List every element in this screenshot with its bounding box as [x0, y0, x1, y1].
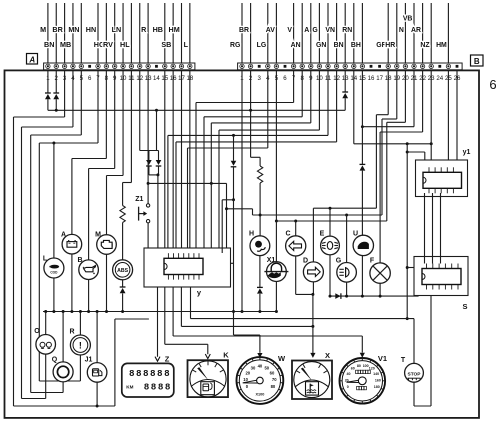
box y1 outline — [416, 160, 468, 197]
svg-text:V1: V1 — [378, 354, 387, 363]
wire T bottom to S bottom — [413, 382, 415, 406]
wire A12 to bar — [139, 70, 141, 151]
svg-text:0: 0 — [347, 385, 349, 389]
wire to lamp C — [295, 221, 297, 236]
svg-text:A: A — [28, 55, 35, 64]
wire colour labels connector B — [230, 16, 447, 50]
junction node bus311/ABS — [121, 310, 124, 313]
wire B19 bus y215 — [396, 70, 398, 119]
svg-text:40: 40 — [347, 372, 351, 376]
connector B strip — [238, 63, 463, 70]
wire A7 to R (left margin) — [97, 70, 99, 143]
svg-text:888888: 888888 — [129, 368, 171, 379]
wire Z1 to box y — [147, 223, 149, 253]
svg-text:BN: BN — [334, 42, 344, 49]
junction node J1 tap — [96, 405, 99, 408]
wire A5 to Q (left margin) — [80, 70, 82, 135]
wire colour labels connector A — [40, 25, 189, 49]
connector B label box — [471, 55, 484, 66]
wire lamp H to diode — [259, 256, 261, 288]
svg-text:24: 24 — [436, 75, 443, 82]
wire B9 to box y — [310, 70, 312, 123]
wire B4 to box y — [267, 70, 269, 148]
wire resistor R2 to lamp H — [259, 183, 261, 236]
junction node diode D10 tap — [232, 134, 235, 137]
wire A18 to box y — [189, 70, 191, 253]
junction node H feed — [259, 214, 262, 217]
wire lamp D to X — [312, 282, 314, 294]
diode D3 on pin B13 — [344, 70, 346, 92]
wire bus318 to T — [191, 318, 415, 320]
wire tap to lamp L — [53, 143, 55, 259]
wire B25 to box y1 — [447, 70, 449, 167]
svg-text:E: E — [320, 231, 325, 238]
wire B12 to box y — [336, 70, 338, 142]
IC U3 body — [422, 269, 461, 285]
wire to lamp X1 — [275, 221, 277, 262]
junction node G feed — [345, 214, 348, 217]
junction node bus311/A — [70, 310, 73, 313]
junction node bus311/M — [105, 310, 108, 313]
wire lamp X1 to bus — [275, 282, 277, 312]
wire B2 to resistor R2 — [250, 70, 252, 158]
svg-text:Q: Q — [52, 357, 58, 364]
wire A15 to box y — [164, 70, 166, 253]
wire A3 to J1 (left margin) — [64, 70, 66, 117]
arrowhead W feed — [257, 353, 262, 358]
svg-text:KM: KM — [126, 384, 133, 389]
svg-text:A: A — [304, 27, 309, 34]
wire box y to X — [180, 287, 182, 326]
svg-text:!: ! — [79, 340, 82, 350]
diode D1 on pin A1 — [47, 70, 49, 93]
resistor R1 — [120, 206, 125, 223]
junction node dogleg — [225, 207, 228, 210]
wire A11 to resistor R1 — [130, 70, 132, 183]
svg-text:X100: X100 — [255, 392, 264, 396]
wire diode pair branch to box y — [157, 183, 159, 253]
junction node S entry — [406, 266, 409, 269]
junction node bus296/F — [379, 295, 382, 298]
wires from harness to connector B — [241, 3, 243, 63]
diode D5 — [158, 151, 160, 161]
gauge W (tachometer) — [237, 357, 284, 404]
svg-text:W: W — [278, 354, 286, 363]
IC U1 pins — [167, 253, 169, 258]
junction node W wire on bus311 — [232, 310, 235, 313]
svg-text:16: 16 — [368, 75, 375, 82]
svg-text:L: L — [184, 40, 189, 49]
connector B pins 1-26 — [240, 64, 244, 68]
junction node bus/B2 — [249, 109, 252, 112]
svg-text:6: 6 — [489, 77, 496, 92]
svg-text:G: G — [336, 258, 342, 265]
svg-text:180: 180 — [374, 385, 380, 389]
wire lamp M to bus — [106, 254, 108, 312]
switch Z1 — [146, 204, 149, 207]
diode D4 — [148, 151, 150, 161]
svg-text:T: T — [401, 357, 406, 364]
svg-text:GN: GN — [316, 42, 326, 49]
wire A17 to box y — [181, 70, 183, 253]
wire A4 to O (left margin) — [72, 70, 74, 127]
wire lamp G to bus296 — [346, 282, 348, 296]
svg-text:3: 3 — [258, 75, 262, 82]
svg-text:10: 10 — [243, 377, 248, 382]
resistor R2 — [257, 166, 262, 183]
wire B18 to lamps D/E — [387, 70, 389, 115]
svg-text:LN: LN — [112, 25, 122, 34]
junction node y1 left feed — [406, 151, 409, 154]
connector A pins 1-18 — [46, 64, 50, 68]
wire lamp E to bus296 — [329, 255, 331, 296]
wire A13 to Z1 — [147, 70, 149, 204]
svg-text:14: 14 — [153, 75, 160, 82]
svg-text:Z1: Z1 — [135, 196, 143, 203]
diode D2 on pin A2 — [55, 70, 57, 93]
wire bottom run to box y — [114, 319, 116, 406]
junction node T line — [406, 317, 409, 320]
wire lamp F to bus296 — [379, 283, 381, 296]
svg-text:NZ: NZ — [420, 42, 430, 49]
arrowhead V1 feed — [360, 353, 365, 358]
junction node diode pair — [156, 173, 159, 176]
svg-text:60: 60 — [270, 370, 275, 375]
svg-text:17: 17 — [376, 75, 383, 82]
IC U2 pins — [428, 167, 430, 172]
svg-text:VB: VB — [403, 16, 413, 23]
wire B20 bus y221 — [404, 70, 406, 123]
instrument cluster outer border — [5, 70, 480, 418]
wire B10 to box y — [318, 70, 320, 130]
wire bus tap to bar — [156, 110, 158, 150]
junction node bus311/B1 — [241, 310, 244, 313]
svg-text:B: B — [474, 57, 480, 66]
wire B7 to box y — [293, 70, 295, 103]
svg-text:AR: AR — [411, 27, 421, 34]
wire lamp U to bus296 — [361, 256, 363, 296]
svg-text:MN: MN — [68, 25, 79, 34]
wire lamp C down — [295, 256, 297, 294]
junction node A13/busy183 — [147, 182, 150, 185]
junction node X feed — [311, 325, 314, 328]
wire to box S left — [407, 267, 414, 269]
svg-text:30: 30 — [251, 366, 256, 371]
connector A strip — [44, 63, 195, 70]
junction node bus/diode-pair tap — [155, 109, 158, 112]
junction node bus311/J1 — [96, 310, 99, 313]
wire lamp ABS to diode — [122, 279, 124, 287]
svg-text:RN: RN — [342, 27, 352, 34]
junction node bus311/O — [44, 310, 47, 313]
svg-text:O: O — [34, 328, 40, 335]
wire diode D7 to bus — [259, 294, 261, 312]
connector A label box — [27, 54, 38, 65]
junction node bus311/B — [87, 310, 90, 313]
svg-text:N: N — [399, 27, 404, 34]
wire lamp R to bus — [79, 312, 81, 356]
svg-text:ABS: ABS — [117, 268, 128, 274]
svg-text:20: 20 — [245, 370, 250, 375]
wire B1 — [241, 70, 243, 312]
wire branch to lamp E — [329, 208, 331, 236]
box y outline — [144, 248, 231, 287]
svg-text:60: 60 — [351, 367, 355, 371]
wire B5 to bus y221 — [275, 70, 277, 221]
svg-text:HM: HM — [436, 42, 447, 49]
svg-text:STOP: STOP — [408, 371, 422, 377]
arrowhead X feed — [310, 353, 315, 358]
svg-text:40: 40 — [258, 364, 263, 369]
svg-text:140: 140 — [373, 372, 379, 376]
wire diode pair join — [149, 174, 159, 176]
supply bus wire y110 — [48, 109, 345, 111]
wire S/T feed vertical — [406, 144, 408, 319]
wire box y to display Z — [157, 287, 159, 357]
wire bridge to box y — [222, 199, 233, 201]
wire B22 to lamp F — [422, 70, 424, 132]
svg-text:HL: HL — [120, 40, 130, 49]
svg-text:V: V — [287, 27, 292, 34]
wire A10 to lamp M — [122, 70, 124, 176]
diode D8 in bus296 — [335, 293, 340, 299]
bar wire y150.5 — [140, 150, 159, 152]
wire A16 to box y — [172, 70, 174, 253]
diode D9 on pin B15 — [361, 70, 363, 165]
wire box y out to bus318 — [190, 287, 192, 319]
svg-text:BN: BN — [44, 40, 54, 49]
connector A pin numbers 1-18 — [46, 75, 194, 82]
wire lamp O to bus — [45, 312, 47, 354]
gauge V1 (speedometer) — [340, 358, 386, 404]
svg-text:8888: 8888 — [144, 382, 172, 393]
wire box y to W — [231, 262, 234, 264]
svg-text:100: 100 — [363, 364, 369, 368]
svg-text:HM: HM — [169, 25, 180, 34]
svg-text:J1: J1 — [85, 357, 93, 364]
junction node C/D merge — [311, 293, 314, 296]
svg-text:VN: VN — [325, 27, 335, 34]
svg-text:AN: AN — [291, 42, 301, 49]
junction node y1 feed — [430, 142, 433, 145]
diode D6 under ABS — [120, 286, 126, 288]
svg-text:HB: HB — [153, 25, 163, 34]
arrowhead K feed — [205, 354, 210, 359]
wire to lamp G — [346, 215, 348, 263]
junction node bus311/R — [79, 310, 82, 313]
svg-text:F: F — [370, 258, 375, 265]
wire B26 to box y1 — [456, 70, 458, 167]
svg-text:LG: LG — [257, 42, 267, 49]
box S outline — [414, 257, 468, 296]
wire diode D6 to bus — [122, 293, 124, 311]
svg-text:BH: BH — [351, 42, 361, 49]
wire B8 to box y — [301, 70, 303, 117]
lamp supply bus y311 — [43, 311, 276, 313]
wire lamp A to bus — [71, 253, 73, 311]
junction node bridge — [232, 198, 235, 201]
wire lamp Q to bus — [62, 312, 64, 363]
display Z (odometer LCD) — [122, 363, 174, 397]
svg-text:Z: Z — [165, 355, 170, 364]
wire box y to V1 — [172, 287, 174, 336]
junction node bus296/E — [329, 295, 332, 298]
wire diode pair to bus y183 — [157, 175, 159, 184]
svg-text:RG: RG — [230, 42, 240, 49]
svg-text:80: 80 — [271, 384, 276, 389]
wire lamp J1 to bus — [96, 312, 98, 364]
junction node bus311/H — [258, 310, 261, 313]
svg-text:AV: AV — [266, 27, 275, 34]
IC U1 body — [164, 258, 203, 274]
wire A9 to lamp B — [114, 70, 116, 169]
wire lamp B to bus — [88, 279, 90, 312]
svg-text:R: R — [141, 25, 147, 34]
svg-text:MB: MB — [60, 40, 71, 49]
svg-text:HR: HR — [385, 42, 395, 49]
svg-text:70: 70 — [272, 377, 277, 382]
svg-text:COD: COD — [50, 271, 58, 275]
junction node bus311/X1 — [275, 310, 278, 313]
junction node bus296/G — [345, 295, 348, 298]
wire into y1 left — [407, 151, 425, 153]
lamp bus y296 — [330, 295, 419, 297]
junction node busy183/B9 branch — [210, 182, 213, 185]
svg-text:80: 80 — [357, 364, 361, 368]
wire resistor R1 to lamp ABS — [122, 223, 124, 261]
wires from harness to connector A — [47, 3, 49, 63]
svg-text:H: H — [249, 231, 254, 238]
junction node B15/U wire — [361, 125, 364, 128]
svg-text:HN: HN — [86, 25, 96, 34]
svg-text:BR: BR — [52, 25, 63, 34]
wire box y to K — [164, 287, 166, 344]
bus wire y183.4 — [148, 182, 226, 184]
junction node bus311/L — [52, 310, 55, 313]
svg-text:y1: y1 — [463, 149, 471, 156]
junction node L-tap — [52, 142, 55, 145]
wire B14 bus — [353, 70, 355, 144]
wire busy183 corner into box y — [226, 183, 228, 253]
junction node bus296/U — [361, 295, 364, 298]
svg-text:BR: BR — [239, 27, 249, 34]
junction node X1 feed — [275, 220, 278, 223]
IC U2 body — [423, 172, 462, 188]
diode D7 under H — [257, 286, 263, 288]
svg-text:X: X — [325, 351, 330, 360]
diode D10 — [233, 135, 235, 160]
svg-text:K: K — [223, 351, 229, 360]
svg-text:C: C — [285, 231, 290, 238]
svg-text:RV: RV — [103, 40, 113, 49]
junction node S/T feed — [406, 142, 409, 145]
svg-text:SB: SB — [161, 40, 171, 49]
wire B11 to box y — [327, 70, 329, 136]
wire A8 to lamp A — [105, 70, 107, 159]
arrowhead display Z feed — [155, 357, 160, 362]
junction node A2/bus — [55, 109, 58, 112]
junction node E branch — [329, 207, 332, 210]
wire B23 to box y1 — [430, 70, 432, 167]
IC U3 pins — [426, 264, 428, 269]
svg-text:R: R — [69, 329, 74, 336]
svg-text:160: 160 — [375, 378, 381, 382]
svg-text:6: 6 — [88, 75, 92, 82]
wires y1 to S — [424, 193, 426, 264]
junction node C feed — [294, 220, 297, 223]
wire lamp L to bus — [53, 278, 55, 312]
lamp ABS — [113, 260, 133, 280]
svg-text:M: M — [40, 25, 46, 34]
junction node bus311/Q — [62, 310, 65, 313]
svg-text:S: S — [462, 302, 467, 311]
connector B pin numbers 1-26 — [240, 75, 461, 82]
svg-text:G: G — [312, 27, 317, 34]
wire B21 to lamp U — [413, 70, 415, 127]
